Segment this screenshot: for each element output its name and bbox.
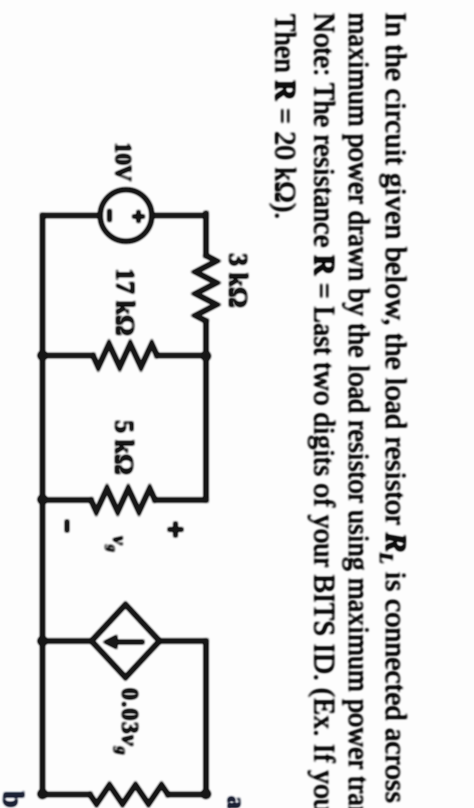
svg-text:3 kΩ: 3 kΩ [224,253,253,308]
svg-text:vg: vg [104,536,130,552]
svg-text:17 kΩ: 17 kΩ [111,268,140,336]
svg-text:10V: 10V [111,142,136,182]
svg-text:b: b [0,791,30,808]
svg-text:Note: The resistance R = Last: Note: The resistance R = Last two digits… [307,13,340,808]
svg-text:5 kΩ: 5 kΩ [110,420,139,475]
svg-text:Then R = 20 kΩ).: Then R = 20 kΩ). [268,14,301,219]
svg-text:In the circuit given below, th: In the circuit given below, the load res… [375,12,412,808]
svg-text:a: a [222,796,251,808]
svg-text:maximum power drawn by the loa: maximum power drawn by the load resistor… [342,13,375,808]
svg-text:0.03vg: 0.03vg [113,688,142,756]
